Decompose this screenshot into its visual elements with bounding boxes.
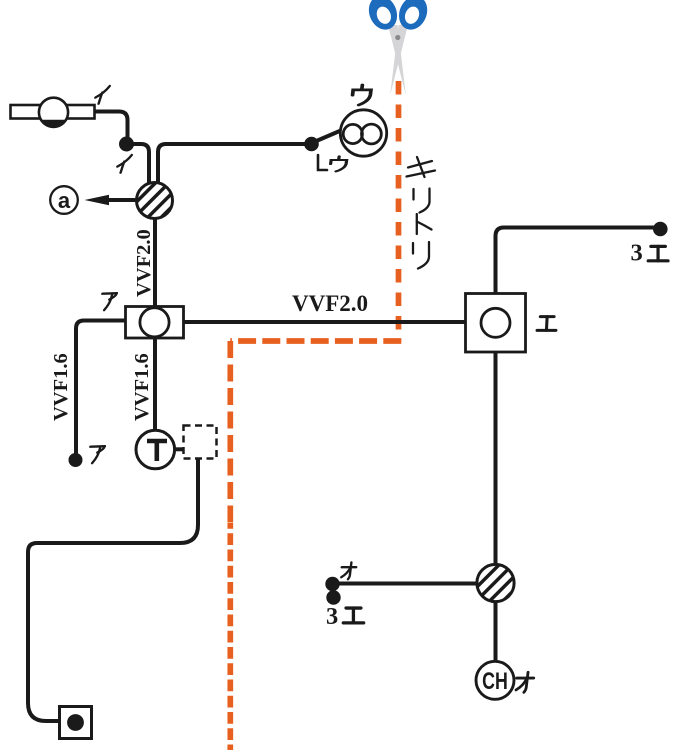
- wire dot ウ to lamp ウ: [314, 130, 342, 142]
- svg-text:3: 3: [631, 240, 643, 267]
- label キリトリ vertical: [407, 157, 436, 269]
- fluorescent luminaire イ: [11, 98, 95, 127]
- wire dot イ to joint box: [130, 144, 149, 184]
- wire joint box to lamp dot ウ: [158, 144, 307, 184]
- outlet / power source box bottom left: [60, 707, 92, 739]
- label イ (fluorescent): [95, 86, 110, 104]
- label エ (box): [537, 317, 557, 331]
- label ア (wire end): [88, 446, 105, 463]
- VVF joint box 2 (hatched circle): [477, 564, 514, 601]
- wire joint box 2 left to オ dot: [336, 582, 478, 586]
- label オ (dot): [341, 562, 357, 579]
- wire box ア down to T: [153, 337, 157, 433]
- scissors blade left: [388, 25, 406, 95]
- wire end dot オ: [325, 577, 339, 591]
- wire end dot 3エ lower: [326, 590, 340, 604]
- scissors handle right ring: [394, 0, 432, 34]
- wire T to dashed box: [173, 447, 184, 451]
- wire VVF2.0 joint box to box ア: [153, 217, 157, 308]
- dashed equipment box: [184, 426, 217, 459]
- wire joint box 2 down to CH: [494, 600, 498, 663]
- arrowhead to (a): [85, 195, 110, 205]
- cut line left vertical upper: [227, 341, 233, 523]
- cut line horizontal segment: [230, 338, 401, 344]
- wire dashed box down to outlet: [28, 459, 198, 722]
- cut line vertical from scissors (キリトリ orange dashed): [396, 81, 402, 341]
- junction dot ウ: [304, 137, 319, 152]
- wire VVF2.0 box ア to box エ: [182, 320, 467, 324]
- lamp ウ (circle with two circles): [340, 110, 386, 156]
- wire end dot 3エ top right: [653, 222, 668, 237]
- wire box ア left branch down to ア end: [76, 321, 127, 457]
- scissors handle left ring: [364, 0, 402, 34]
- outlet box ア (rect with circle): [126, 307, 184, 339]
- svg-text:VVF2.0: VVF2.0: [133, 229, 155, 297]
- chime CH: [476, 661, 514, 699]
- scissors pivot: [395, 35, 400, 40]
- label ア (box): [100, 293, 117, 310]
- wire box エ down to joint box 2: [494, 351, 498, 566]
- svg-text:3: 3: [326, 603, 338, 630]
- label Lウ (dot): [318, 155, 327, 170]
- junction dot イ: [119, 137, 134, 152]
- scissors: [364, 0, 432, 95]
- svg-text:VVF2.0: VVF2.0: [292, 291, 368, 316]
- svg-text:VVF1.6: VVF1.6: [131, 353, 153, 421]
- wire joint box to (a) arrow: [100, 198, 137, 202]
- outlet box エ (square with circle): [466, 294, 526, 353]
- wire box エ up to 3エ end: [496, 228, 657, 296]
- wire fluorescent to junction dot イ: [95, 112, 128, 139]
- wire end dot ア: [69, 453, 83, 467]
- receptacle (a): [50, 186, 78, 214]
- VVF joint box 1 (hatched circle): [137, 183, 173, 219]
- label イ (junction dot): [117, 155, 132, 173]
- svg-text:VVF1.6: VVF1.6: [50, 353, 72, 421]
- thermostat T: [136, 430, 175, 469]
- svg-text:CH: CH: [482, 669, 508, 695]
- label オ (CH): [515, 672, 534, 692]
- cut line left vertical lower: [227, 523, 233, 750]
- label ウ (lamp): [353, 85, 371, 105]
- scissors blade right: [390, 25, 408, 95]
- svg-text:a: a: [58, 188, 71, 213]
